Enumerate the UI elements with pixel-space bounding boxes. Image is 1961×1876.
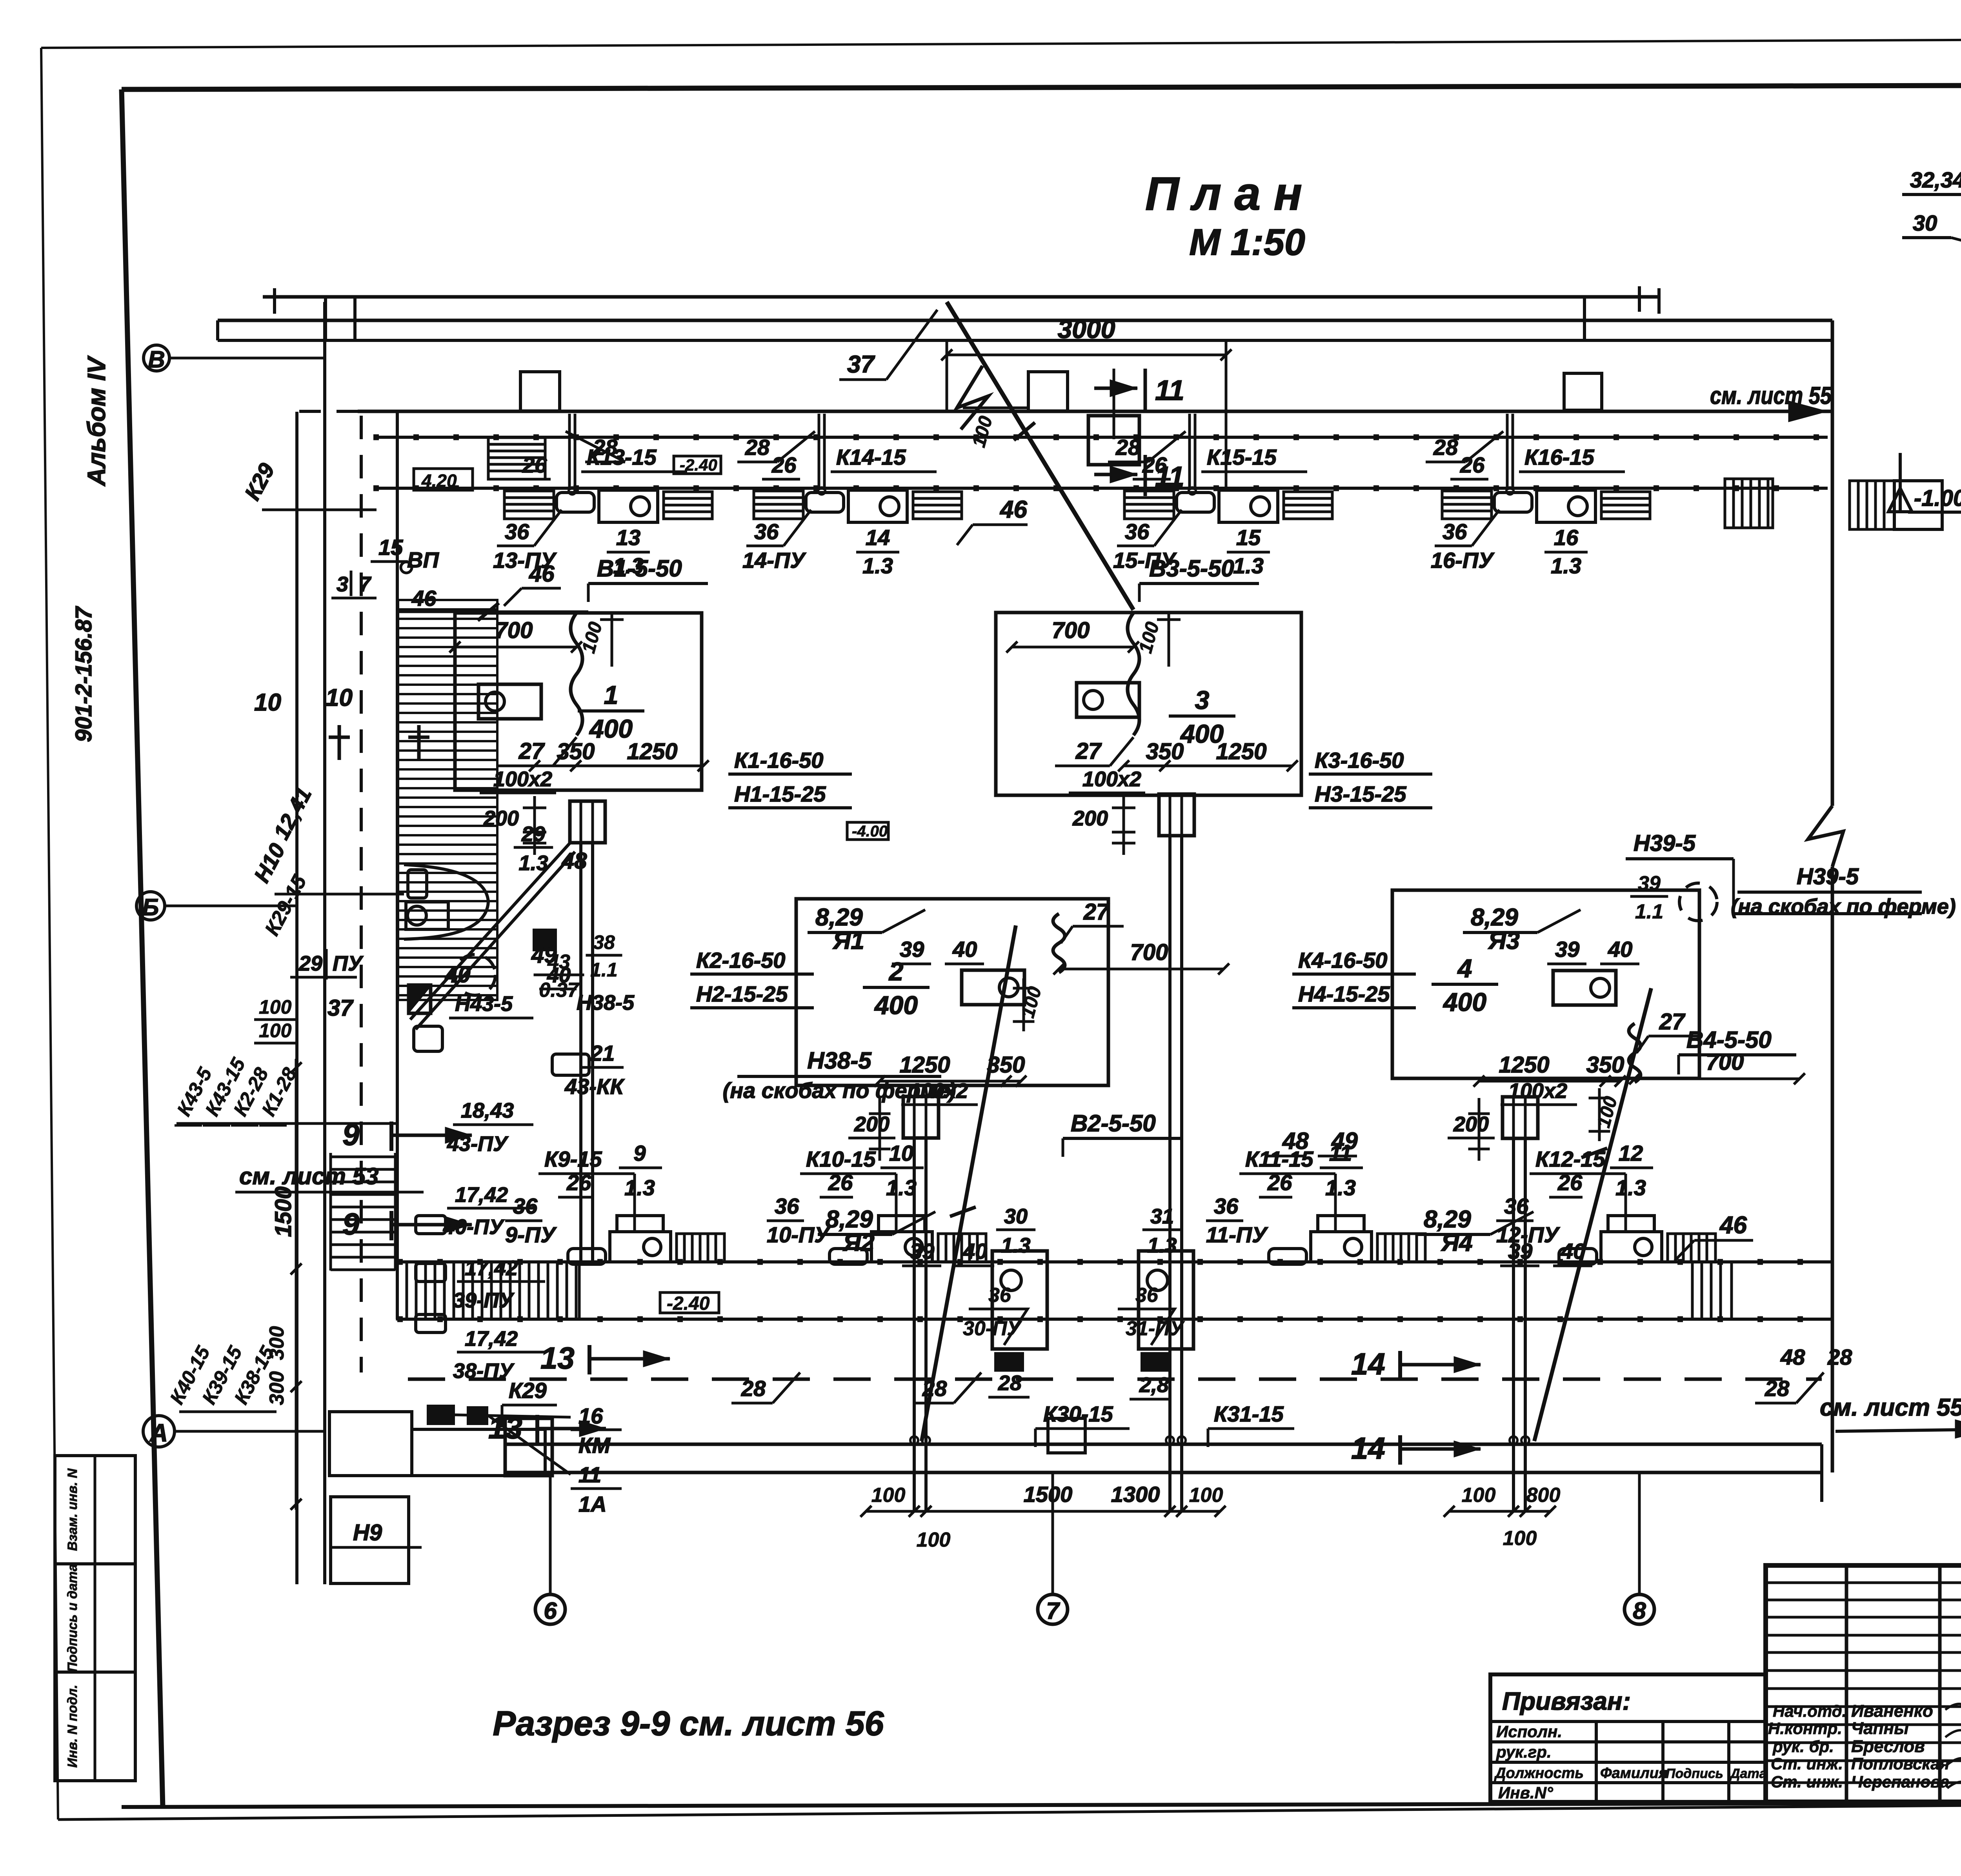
- svg-text:Инв. N подл.: Инв. N подл.: [65, 1685, 80, 1768]
- svg-text:Н.контр.: Н.контр.: [1768, 1719, 1842, 1738]
- svg-text:350: 350: [1586, 1052, 1624, 1078]
- svg-text:40: 40: [952, 937, 977, 962]
- svg-text:30: 30: [1004, 1205, 1028, 1228]
- svg-text:М 1:50: М 1:50: [1189, 222, 1305, 263]
- svg-text:38: 38: [593, 931, 615, 953]
- svg-text:100х2: 100х2: [1508, 1079, 1567, 1103]
- svg-text:28: 28: [998, 1371, 1022, 1395]
- svg-text:39: 39: [910, 1239, 934, 1263]
- svg-text:36: 36: [1125, 519, 1150, 544]
- svg-text:27: 27: [518, 738, 545, 764]
- svg-text:26: 26: [1557, 1170, 1583, 1195]
- svg-text:100х2: 100х2: [1082, 767, 1141, 791]
- svg-text:К29: К29: [240, 459, 279, 504]
- svg-text:100: 100: [1462, 1484, 1496, 1507]
- svg-text:350: 350: [987, 1052, 1025, 1078]
- svg-text:36: 36: [505, 519, 529, 544]
- svg-text:46: 46: [529, 561, 555, 587]
- svg-text:13: 13: [616, 525, 640, 550]
- svg-text:-2.40: -2.40: [680, 456, 717, 474]
- svg-text:1.3: 1.3: [518, 851, 548, 875]
- svg-text:см. лист 55: см. лист 55: [1820, 1394, 1961, 1421]
- svg-text:1250: 1250: [627, 739, 677, 764]
- svg-text:10: 10: [254, 689, 281, 716]
- svg-text:27: 27: [1659, 1009, 1686, 1034]
- svg-text:Н9: Н9: [353, 1520, 382, 1545]
- svg-text:28: 28: [1765, 1376, 1790, 1401]
- svg-text:Н39-5: Н39-5: [1634, 831, 1696, 856]
- svg-text:Н1-15-25: Н1-15-25: [734, 782, 826, 806]
- svg-text:200: 200: [1072, 807, 1108, 830]
- svg-text:14: 14: [1351, 1347, 1385, 1381]
- svg-text:39: 39: [1638, 872, 1661, 895]
- svg-text:28: 28: [1827, 1345, 1852, 1369]
- svg-text:40: 40: [1608, 937, 1632, 962]
- svg-text:7: 7: [1046, 1598, 1060, 1624]
- svg-text:26: 26: [566, 1170, 591, 1195]
- svg-text:100: 100: [1503, 1527, 1537, 1550]
- svg-text:1.3: 1.3: [1233, 553, 1264, 578]
- svg-text:11: 11: [1155, 375, 1184, 406]
- svg-text:1250: 1250: [899, 1052, 950, 1078]
- svg-text:17,42: 17,42: [465, 1327, 518, 1351]
- svg-text:26: 26: [522, 453, 547, 477]
- svg-text:В3-5-50: В3-5-50: [1149, 555, 1234, 582]
- svg-text:(на скобах по ферме): (на скобах по ферме): [723, 1078, 956, 1103]
- svg-text:700: 700: [1706, 1049, 1744, 1075]
- svg-text:3: 3: [337, 573, 348, 596]
- svg-text:40: 40: [962, 1239, 987, 1263]
- svg-text:26: 26: [771, 453, 797, 477]
- svg-text:28: 28: [1115, 435, 1141, 460]
- svg-text:1.1: 1.1: [590, 959, 618, 981]
- svg-text:Исполн.: Исполн.: [1496, 1722, 1562, 1741]
- svg-text:36: 36: [754, 519, 779, 544]
- svg-text:см. лист 55: см. лист 55: [1710, 382, 1832, 409]
- svg-text:Попловская: Попловская: [1851, 1754, 1949, 1773]
- svg-text:Подпись и дата: Подпись и дата: [65, 1564, 80, 1672]
- svg-text:28: 28: [922, 1376, 947, 1401]
- svg-text:14: 14: [1351, 1431, 1385, 1465]
- svg-text:1.3: 1.3: [862, 553, 893, 578]
- svg-text:Н3-15-25: Н3-15-25: [1315, 782, 1406, 806]
- svg-text:В2-5-50: В2-5-50: [1071, 1110, 1156, 1136]
- svg-text:-2.40: -2.40: [667, 1293, 710, 1314]
- svg-text:К12-15: К12-15: [1535, 1147, 1606, 1171]
- svg-text:31: 31: [1150, 1205, 1174, 1228]
- svg-text:КМ: КМ: [578, 1433, 611, 1458]
- svg-text:-1.00: -1.00: [1914, 485, 1961, 511]
- svg-text:1.3: 1.3: [886, 1175, 917, 1200]
- svg-text:15: 15: [1236, 525, 1261, 550]
- svg-text:100: 100: [259, 1020, 292, 1042]
- svg-text:Ст. инж.: Ст. инж.: [1771, 1772, 1843, 1791]
- svg-text:8: 8: [1633, 1598, 1646, 1624]
- svg-text:43-КК: 43-КК: [564, 1074, 625, 1099]
- svg-text:300: 300: [266, 1371, 288, 1405]
- svg-text:39: 39: [1555, 937, 1579, 962]
- svg-text:100: 100: [1017, 984, 1046, 1020]
- svg-text:32,34,56: 32,34,56: [1910, 167, 1961, 192]
- svg-text:Взам. инв. N: Взам. инв. N: [65, 1468, 80, 1551]
- svg-text:Иваненко: Иваненко: [1851, 1701, 1933, 1721]
- svg-text:400: 400: [874, 991, 918, 1020]
- svg-text:1.3: 1.3: [1615, 1175, 1646, 1200]
- svg-text:К10-15: К10-15: [806, 1147, 876, 1171]
- svg-text:А: А: [149, 1419, 168, 1447]
- svg-text:Н4-15-25: Н4-15-25: [1298, 982, 1390, 1006]
- svg-text:К9-15: К9-15: [544, 1147, 602, 1171]
- svg-text:9: 9: [342, 1207, 360, 1241]
- svg-text:29: 29: [298, 952, 322, 975]
- svg-text:350: 350: [1146, 739, 1184, 764]
- svg-text:46: 46: [1719, 1212, 1747, 1239]
- svg-text:8,29: 8,29: [1471, 904, 1518, 931]
- svg-text:К3-16-50: К3-16-50: [1315, 748, 1404, 773]
- svg-text:12: 12: [1619, 1141, 1643, 1165]
- svg-text:-4.00: -4.00: [852, 823, 888, 840]
- svg-text:К11-15: К11-15: [1245, 1147, 1313, 1171]
- svg-text:27: 27: [1083, 899, 1110, 925]
- svg-text:901-2-156.87: 901-2-156.87: [71, 606, 96, 742]
- svg-text:37: 37: [847, 351, 875, 378]
- svg-text:7: 7: [359, 573, 372, 596]
- svg-text:28: 28: [741, 1376, 766, 1401]
- svg-text:0.37: 0.37: [539, 979, 579, 1002]
- svg-text:Дата: Дата: [1729, 1766, 1767, 1781]
- svg-text:К30-15: К30-15: [1043, 1402, 1113, 1426]
- svg-text:К14-15: К14-15: [836, 445, 906, 469]
- svg-text:Нач.отд.: Нач.отд.: [1773, 1702, 1846, 1720]
- svg-text:11-ПУ: 11-ПУ: [1206, 1222, 1268, 1247]
- svg-text:2,8: 2,8: [1139, 1373, 1169, 1397]
- svg-text:46: 46: [411, 586, 437, 611]
- svg-text:40-ПУ: 40-ПУ: [443, 1215, 505, 1239]
- svg-text:Я4: Я4: [1441, 1229, 1473, 1256]
- svg-text:11: 11: [578, 1462, 601, 1487]
- svg-text:39: 39: [900, 937, 924, 962]
- svg-text:16-ПУ: 16-ПУ: [1431, 548, 1495, 573]
- svg-text:3: 3: [1195, 685, 1210, 714]
- svg-text:14: 14: [866, 525, 890, 550]
- svg-text:К15-15: К15-15: [1207, 445, 1277, 469]
- svg-text:38-ПУ: 38-ПУ: [453, 1359, 515, 1383]
- svg-text:700: 700: [495, 618, 533, 643]
- svg-text:48: 48: [1780, 1345, 1805, 1369]
- svg-text:Б: Б: [142, 894, 159, 920]
- svg-text:200: 200: [854, 1113, 890, 1136]
- svg-text:200: 200: [1453, 1113, 1489, 1136]
- svg-text:Должность: Должность: [1494, 1765, 1584, 1781]
- svg-text:26: 26: [1267, 1170, 1292, 1195]
- svg-text:К31-15: К31-15: [1214, 1402, 1284, 1426]
- svg-text:46: 46: [999, 496, 1027, 523]
- svg-text:39: 39: [1508, 1239, 1532, 1263]
- svg-text:В: В: [148, 346, 165, 373]
- svg-text:37: 37: [327, 995, 354, 1021]
- svg-text:Н39-5: Н39-5: [1797, 864, 1859, 889]
- svg-text:К2-16-50: К2-16-50: [696, 948, 785, 973]
- svg-text:11: 11: [1329, 1141, 1352, 1165]
- svg-text:100: 100: [1135, 620, 1163, 655]
- svg-text:40: 40: [445, 962, 471, 987]
- svg-text:см. лист 53: см. лист 53: [239, 1163, 378, 1189]
- svg-text:рук.гр.: рук.гр.: [1496, 1743, 1552, 1761]
- svg-text:400: 400: [589, 714, 633, 743]
- svg-text:1.3: 1.3: [1325, 1175, 1356, 1200]
- svg-text:4.20: 4.20: [421, 471, 457, 491]
- svg-text:8,29: 8,29: [1424, 1206, 1471, 1233]
- svg-text:36: 36: [775, 1194, 799, 1218]
- svg-text:1.1: 1.1: [1635, 900, 1663, 923]
- svg-text:Разрез 9-9 см. лист 56: Разрез 9-9 см. лист 56: [493, 1704, 884, 1743]
- svg-text:1.3: 1.3: [624, 1175, 655, 1200]
- svg-text:36: 36: [1135, 1284, 1159, 1307]
- svg-text:16: 16: [1554, 525, 1579, 550]
- svg-text:10: 10: [326, 684, 353, 711]
- svg-text:40: 40: [1561, 1239, 1585, 1263]
- svg-text:12,41: 12,41: [269, 783, 316, 843]
- svg-text:9: 9: [633, 1141, 646, 1165]
- svg-text:1: 1: [604, 680, 618, 709]
- svg-text:1.3: 1.3: [1551, 553, 1581, 578]
- svg-text:700: 700: [1130, 940, 1168, 965]
- svg-text:27: 27: [1075, 738, 1102, 764]
- svg-text:21: 21: [590, 1041, 615, 1065]
- svg-text:10: 10: [889, 1141, 913, 1165]
- svg-text:48: 48: [561, 848, 587, 874]
- svg-text:14-ПУ: 14-ПУ: [742, 548, 806, 573]
- svg-text:43-ПУ: 43-ПУ: [447, 1132, 509, 1156]
- svg-text:1.3: 1.3: [1147, 1234, 1177, 1257]
- svg-text:26: 26: [1460, 453, 1485, 477]
- svg-text:Н38-5: Н38-5: [577, 991, 635, 1014]
- svg-text:30-ПУ: 30-ПУ: [963, 1317, 1022, 1340]
- svg-text:Н2-15-25: Н2-15-25: [696, 982, 788, 1006]
- svg-text:100: 100: [259, 996, 292, 1018]
- svg-text:4: 4: [1457, 954, 1472, 983]
- svg-text:28: 28: [1433, 435, 1458, 460]
- svg-text:26: 26: [828, 1170, 853, 1195]
- svg-text:Чапны: Чапны: [1851, 1719, 1909, 1738]
- svg-text:100: 100: [917, 1529, 951, 1551]
- svg-text:13: 13: [540, 1341, 575, 1375]
- svg-text:200: 200: [483, 807, 519, 830]
- svg-text:Бреслов: Бреслов: [1851, 1737, 1925, 1756]
- svg-text:39-ПУ: 39-ПУ: [453, 1289, 515, 1312]
- svg-text:8,29: 8,29: [826, 1206, 873, 1233]
- svg-text:1300: 1300: [1111, 1482, 1160, 1507]
- svg-text:43: 43: [547, 951, 570, 973]
- svg-text:Н10: Н10: [249, 839, 290, 886]
- svg-text:Фамилия: Фамилия: [1600, 1765, 1667, 1781]
- svg-text:Я1: Я1: [832, 927, 864, 954]
- svg-text:29: 29: [521, 822, 545, 846]
- svg-text:Подпись: Подпись: [1666, 1766, 1723, 1781]
- svg-text:В1-5-50: В1-5-50: [597, 555, 682, 582]
- svg-text:17,42: 17,42: [465, 1256, 518, 1280]
- svg-text:К16-15: К16-15: [1524, 445, 1595, 469]
- svg-text:350: 350: [557, 739, 595, 764]
- svg-text:В4-5-50: В4-5-50: [1686, 1027, 1772, 1053]
- svg-text:1250: 1250: [1216, 739, 1266, 764]
- svg-text:100: 100: [578, 620, 606, 655]
- svg-text:Альбом IV: Альбом IV: [82, 355, 111, 487]
- svg-text:рук. бр.: рук. бр.: [1772, 1737, 1834, 1756]
- svg-text:Ст. инж.: Ст. инж.: [1771, 1754, 1843, 1773]
- svg-text:400: 400: [1443, 987, 1486, 1016]
- svg-text:К1-16-50: К1-16-50: [734, 748, 823, 773]
- svg-text:100: 100: [871, 1484, 906, 1507]
- svg-text:36: 36: [988, 1284, 1011, 1307]
- svg-text:П л а н: П л а н: [1145, 167, 1302, 220]
- svg-text:700: 700: [1052, 618, 1090, 643]
- svg-text:К13-15: К13-15: [587, 445, 657, 469]
- svg-text:Н43-5: Н43-5: [455, 992, 513, 1016]
- svg-text:36: 36: [513, 1194, 538, 1218]
- svg-text:3000: 3000: [1058, 314, 1115, 344]
- svg-text:36: 36: [1214, 1194, 1239, 1218]
- svg-text:1.3: 1.3: [1001, 1234, 1030, 1257]
- svg-text:18,43: 18,43: [461, 1099, 514, 1122]
- svg-text:6: 6: [544, 1598, 557, 1624]
- svg-text:1250: 1250: [1499, 1052, 1549, 1078]
- svg-text:Инв.N°: Инв.N°: [1498, 1783, 1554, 1802]
- svg-text:К29: К29: [509, 1378, 547, 1403]
- svg-text:Я3: Я3: [1488, 927, 1520, 954]
- svg-text:100: 100: [1189, 1484, 1223, 1507]
- svg-text:ПУ: ПУ: [333, 952, 364, 975]
- svg-text:Черепанова: Черепанова: [1851, 1772, 1949, 1791]
- svg-text:36: 36: [1443, 519, 1467, 544]
- svg-text:1500: 1500: [1024, 1482, 1073, 1507]
- svg-text:11: 11: [1155, 461, 1184, 493]
- svg-text:16: 16: [578, 1403, 603, 1428]
- svg-text:Привязан:: Привязан:: [1502, 1687, 1631, 1715]
- svg-text:31-ПУ: 31-ПУ: [1126, 1317, 1185, 1340]
- svg-text:8,29: 8,29: [815, 904, 863, 931]
- svg-text:15: 15: [378, 535, 403, 560]
- svg-text:28: 28: [745, 435, 770, 460]
- svg-text:Я2: Я2: [842, 1229, 875, 1256]
- svg-text:1500: 1500: [271, 1186, 296, 1237]
- svg-text:800: 800: [1526, 1484, 1561, 1507]
- svg-text:9-ПУ: 9-ПУ: [505, 1222, 557, 1247]
- svg-text:Н38-5: Н38-5: [807, 1047, 872, 1074]
- svg-text:100х2: 100х2: [493, 767, 552, 791]
- svg-text:1А: 1А: [578, 1492, 607, 1516]
- svg-text:100: 100: [968, 414, 997, 449]
- svg-text:17,42: 17,42: [455, 1183, 508, 1207]
- svg-text:К4-16-50: К4-16-50: [1298, 948, 1387, 973]
- svg-text:30: 30: [1913, 211, 1937, 235]
